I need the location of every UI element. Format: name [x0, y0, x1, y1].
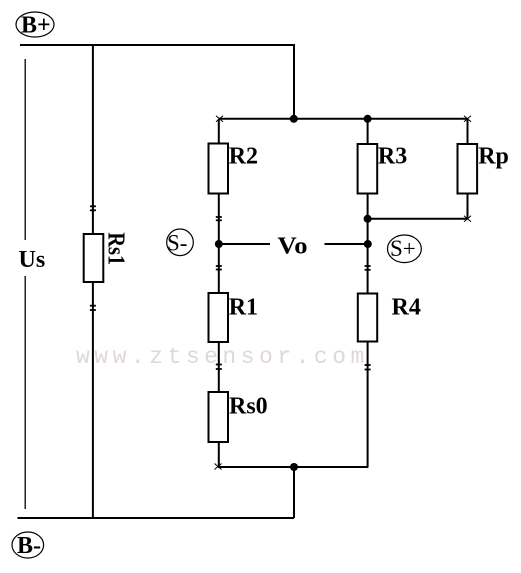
svg-text:S-: S-: [167, 231, 187, 256]
svg-text:S+: S+: [390, 236, 416, 261]
svg-text:B-: B-: [17, 533, 41, 559]
svg-text:R1: R1: [229, 294, 258, 320]
svg-text:Rs0: Rs0: [229, 394, 268, 420]
svg-text:Vo: Vo: [278, 233, 308, 259]
svg-text:www.ztsensor.com: www.ztsensor.com: [76, 344, 369, 370]
svg-text:R2: R2: [229, 144, 258, 170]
svg-text:R3: R3: [378, 144, 407, 170]
svg-text:Rp: Rp: [478, 144, 509, 170]
svg-text:R4: R4: [392, 294, 421, 320]
svg-text:Us: Us: [19, 247, 46, 273]
svg-text:Rs1: Rs1: [103, 232, 129, 265]
svg-text:B+: B+: [21, 13, 51, 39]
